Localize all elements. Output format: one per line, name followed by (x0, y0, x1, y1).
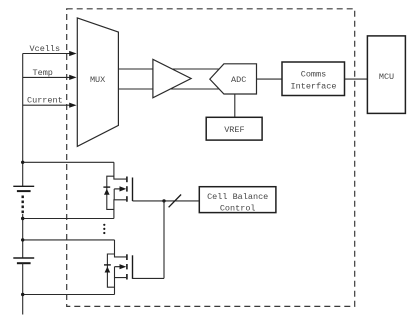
Q1 source lead (114, 200, 126, 219)
wire Vcells input (23, 53, 71, 55)
bus slash mark (169, 195, 182, 208)
wire bottom cell tap to Q2 source (23, 294, 115, 296)
junction dot cell tap 4 (21, 293, 24, 296)
svg-text:MCU: MCU (379, 72, 394, 82)
svg-text:Vcells: Vcells (30, 44, 61, 54)
svg-text:Current: Current (27, 96, 63, 106)
Q2 source contact bar (126, 274, 128, 280)
arrow Vcells into MUX (69, 51, 76, 56)
svg-text:MUX: MUX (90, 75, 105, 85)
Q1 body diode loop (107, 176, 114, 209)
svg-text:Comms: Comms (301, 69, 327, 79)
Q2 drain contact bar (126, 254, 128, 260)
Q2 body contact bar (126, 264, 128, 269)
wire gate bus Q1 to Cell Balance Control (133, 200, 200, 202)
svg-text:Temp: Temp (33, 68, 53, 78)
Q2 body arrow (115, 266, 121, 268)
ADC block (210, 64, 257, 94)
Q1 body diode triangle (104, 189, 110, 195)
battery B2 short plate (17, 262, 31, 264)
arrow Temp into MUX (69, 75, 76, 80)
dashed more-cells segment (22, 196, 24, 214)
wire Comms Interface to MCU (345, 78, 368, 80)
svg-text:Interface: Interface (291, 81, 337, 91)
arrow Current into MUX (69, 103, 76, 108)
wire MUX to ADC upper (118, 68, 225, 70)
wire ADC to Comms Interface (257, 78, 283, 80)
transistor Q2 (104, 240, 133, 295)
Q1 drain contact bar (126, 177, 128, 183)
VREF block (206, 117, 262, 140)
svg-text:Control: Control (220, 203, 256, 213)
Q2 source lead (115, 278, 127, 295)
Q2 body diode loop (107, 254, 114, 287)
wire cell tap to Q2 drain (23, 239, 115, 241)
svg-text:VREF: VREF (224, 125, 244, 135)
battery B1 long plate (13, 185, 34, 187)
Q1 gate bar (132, 178, 134, 202)
junction dot cell tap 1 (21, 161, 24, 164)
Q1 drain lead (114, 162, 126, 179)
Q1 source contact bar (126, 196, 128, 202)
vertical ellipsis between cells (103, 224, 105, 234)
wire mid cell tap to Q1 source (23, 218, 114, 220)
svg-text:Cell Balance: Cell Balance (207, 192, 268, 202)
junction dot cell tap 3 (21, 238, 24, 241)
wire rail between cells (22, 214, 24, 258)
Q2 drain lead (115, 240, 127, 257)
op-amp buffer triangle (153, 59, 191, 98)
MUX block (77, 18, 118, 147)
Cell Balance Control block (199, 187, 276, 214)
battery B1 short plate (17, 190, 31, 192)
wire gate bus to Q2 gate (133, 277, 165, 279)
svg-text:ADC: ADC (231, 75, 246, 85)
wire gate bus vertical (163, 201, 165, 279)
wire ADC to VREF (234, 94, 236, 117)
Comms Interface block (282, 62, 345, 96)
Q2 body tie to source (114, 267, 116, 278)
wire top cell tap to Q1 drain (23, 161, 114, 163)
junction dot gate bus (162, 199, 165, 202)
IC boundary dashed box (67, 9, 355, 307)
battery B2 long plate (13, 257, 34, 259)
Q2 body diode triangle (105, 267, 111, 273)
wire left battery rail upper segment (22, 54, 24, 187)
wire Temp input (23, 76, 71, 78)
wire MUX to ADC lower (118, 88, 225, 90)
Q2 gate bar (132, 255, 134, 278)
transistor Q1 (103, 162, 132, 218)
Q1 body arrow (114, 188, 120, 190)
MCU block (367, 36, 405, 114)
Q1 body tie to source (113, 189, 115, 200)
Q1 body diode cathode bar (103, 186, 110, 188)
wire Current input (23, 104, 71, 106)
Q1 body contact bar (126, 186, 128, 191)
wire rail lower segment (22, 263, 24, 314)
Q2 body diode cathode bar (104, 264, 111, 266)
junction dot cell tap 2 (21, 217, 24, 220)
